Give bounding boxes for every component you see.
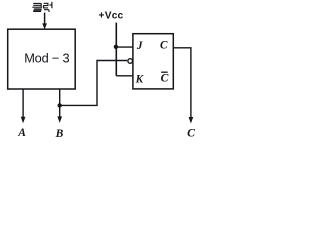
wire to J input: [116, 46, 133, 48]
node J junction: [114, 45, 118, 49]
arrowhead B: [57, 116, 62, 123]
svg-text:+Vcc: +Vcc: [99, 11, 124, 22]
node B junction: [58, 103, 62, 107]
svg-text:B: B: [55, 128, 64, 140]
counter U1 Mod-3 box: [8, 29, 76, 89]
svg-text:C: C: [160, 40, 168, 52]
svg-text:Mod − 3: Mod − 3: [24, 51, 69, 66]
wire output B: [59, 89, 61, 117]
clock input arrow: [42, 13, 47, 30]
feedback wire B to clock input: [60, 61, 128, 106]
wire C output: [173, 48, 191, 117]
arrowhead C: [189, 117, 194, 124]
arrowhead A: [21, 117, 26, 124]
power wire +Vcc vertical: [115, 23, 117, 76]
svg-text:A: A: [17, 127, 26, 139]
pin label C-bar: [161, 72, 169, 85]
svg-text:C: C: [161, 72, 169, 85]
clock inversion bubble: [128, 59, 133, 64]
wire to K input: [116, 75, 133, 77]
svg-text:J: J: [136, 40, 143, 52]
wire output A: [22, 89, 24, 117]
svg-text:C: C: [187, 125, 195, 139]
flip-flop U2 box: [133, 34, 173, 89]
clock label 클럭: [32, 2, 52, 12]
